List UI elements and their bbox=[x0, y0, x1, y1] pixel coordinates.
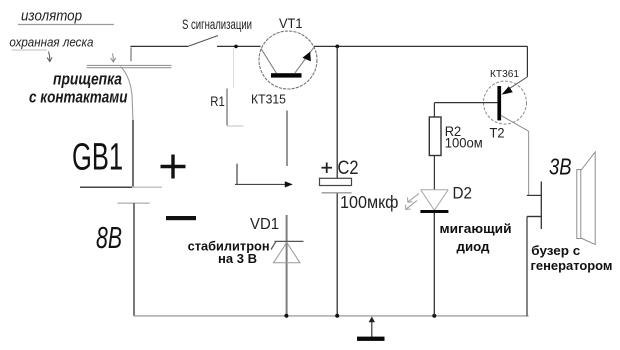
R1 top lead (faint) bbox=[233, 48, 235, 88]
zener VD1 triangle bbox=[274, 243, 301, 263]
svg-text:C2: C2 bbox=[338, 158, 359, 179]
wire left of switch S bbox=[130, 45, 188, 47]
buzzer bottom wire bbox=[527, 216, 542, 218]
buzzer plate bbox=[540, 182, 542, 230]
LED D2 cathode bar bbox=[420, 210, 448, 213]
VT1 emitter line with arrow bbox=[295, 47, 314, 73]
T2 emitter line with arrow bbox=[502, 77, 528, 95]
wire stub at switch start bbox=[130, 48, 132, 62]
svg-text:GB1: GB1 bbox=[72, 137, 123, 179]
capacitor C2 bottom plate bbox=[322, 192, 352, 194]
LED D2 light arrows bbox=[406, 194, 420, 210]
node junction dot (base wire) bbox=[234, 45, 238, 49]
svg-text:бузер с: бузер с bbox=[531, 244, 580, 258]
ground stem with arrow bbox=[369, 317, 375, 338]
svg-text:3В: 3В bbox=[549, 154, 572, 180]
R1 lower stub (faint) bbox=[227, 125, 244, 127]
R2 bottom lead bbox=[433, 156, 435, 190]
wire top rail corner down to T2 bbox=[526, 46, 528, 76]
battery top lead bbox=[132, 120, 134, 187]
C2 bottom lead bbox=[336, 194, 338, 316]
svg-text:КТ315: КТ315 bbox=[251, 91, 286, 106]
T2 base wire from R2 bbox=[434, 102, 497, 104]
VT1 collector line bbox=[261, 49, 277, 74]
buzzer top wire bbox=[527, 194, 542, 196]
battery bottom lead bbox=[133, 203, 135, 316]
node dot D2/rail bbox=[432, 314, 436, 318]
svg-text:прищепка: прищепка bbox=[53, 71, 122, 89]
node dot VD1/rail bbox=[284, 314, 288, 318]
switch S blade bbox=[188, 36, 218, 47]
battery minus symbol bbox=[166, 216, 196, 220]
LED D2 triangle bbox=[421, 190, 449, 211]
svg-text:генератором: генератором bbox=[531, 259, 613, 273]
C2 top lead bbox=[336, 46, 338, 178]
svg-text:изолятор: изолятор bbox=[21, 8, 82, 25]
wire VT1 to top rail bbox=[314, 45, 528, 47]
VT1 emitter wire down bbox=[286, 111, 288, 167]
resistor R1 body wire bbox=[226, 89, 228, 126]
svg-text:R1: R1 bbox=[210, 93, 225, 109]
insulator underline bbox=[18, 24, 114, 26]
battery positive plate bbox=[80, 186, 162, 188]
svg-text:на 3 В: на 3 В bbox=[218, 252, 257, 266]
svg-text:с контактами: с контактами bbox=[29, 87, 128, 106]
D2 bottom lead bbox=[433, 213, 435, 316]
svg-text:D2: D2 bbox=[453, 183, 473, 202]
svg-text:100ом: 100ом bbox=[445, 135, 483, 151]
wire switch to VT1 bbox=[217, 45, 261, 47]
wire R1 to VD1 with arrow bbox=[235, 181, 293, 187]
arrow pointer to clothespin bbox=[111, 54, 116, 63]
svg-text:S сигнализации: S сигнализации bbox=[182, 16, 252, 32]
arrow pointer to line (left) bbox=[47, 52, 52, 62]
zener VD1 wire bbox=[286, 215, 288, 316]
svg-text:охранная леска: охранная леска bbox=[9, 34, 93, 49]
battery plus symbol bbox=[161, 155, 186, 179]
T2 collector diagonal bbox=[501, 115, 529, 131]
svg-text:диод: диод bbox=[457, 239, 491, 254]
T2 collector wire down bbox=[528, 131, 530, 195]
bottom rail wire bbox=[133, 315, 528, 317]
capacitor C2 top plate bbox=[320, 178, 352, 185]
transistor VT1 circle bbox=[259, 31, 317, 89]
wire clothespin to battery (curved) bbox=[121, 67, 134, 123]
T2 base bar bbox=[497, 86, 501, 120]
svg-text:100мкф: 100мкф bbox=[340, 192, 399, 212]
clothespin contact bars bbox=[87, 65, 172, 67]
buzzer bottom lead down bbox=[526, 217, 528, 316]
svg-text:T2: T2 bbox=[490, 125, 505, 141]
zener VD1 cathode bar bbox=[271, 241, 304, 249]
ground bar bbox=[357, 337, 385, 341]
node dot C2/rail bbox=[335, 314, 339, 318]
C2 plus sign bbox=[322, 163, 333, 174]
speaker coil rect bbox=[577, 170, 581, 239]
node junction dot (C2 top) bbox=[335, 45, 339, 49]
R2 top lead bbox=[433, 103, 435, 117]
transistor T2 circle bbox=[484, 81, 527, 124]
resistor R2 body bbox=[429, 117, 441, 156]
speaker cone bbox=[581, 152, 595, 245]
svg-text:VT1: VT1 bbox=[279, 15, 303, 31]
VT1 base bar bbox=[271, 73, 302, 77]
svg-text:8В: 8В bbox=[96, 220, 122, 255]
svg-text:VD1: VD1 bbox=[250, 216, 279, 233]
R1 bottom lead bbox=[236, 164, 238, 185]
battery negative plate bbox=[118, 202, 150, 204]
leader line under охранная леска bbox=[12, 49, 48, 51]
svg-text:мигающий: мигающий bbox=[440, 221, 512, 236]
svg-text:КТ361: КТ361 bbox=[490, 68, 519, 80]
